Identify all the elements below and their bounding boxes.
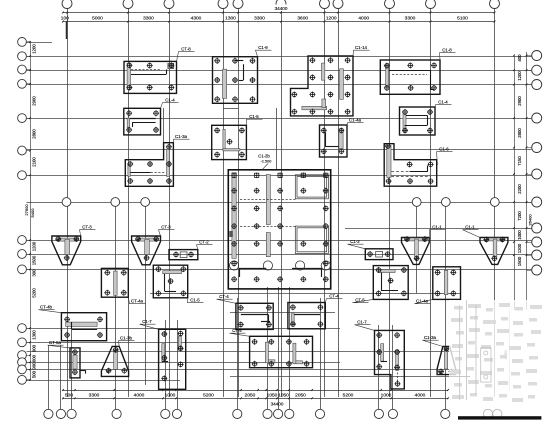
- grid start mark: [66, 22, 68, 39]
- svg-text:5100: 5100: [457, 16, 468, 22]
- large bored piles in C1-2b: [230, 261, 239, 270]
- inline axis bubbles: [62, 198, 499, 207]
- svg-text:CT-2: CT-2: [199, 240, 209, 245]
- svg-text:C1-3a: C1-3a: [175, 134, 188, 139]
- svg-text:C1-2: C1-2: [350, 239, 360, 244]
- pile cap C1-7 right: [355, 320, 405, 389]
- pile cap C1-8: [380, 48, 455, 95]
- svg-text:C1-5: C1-5: [249, 114, 259, 119]
- svg-text:C1-6: C1-6: [439, 147, 449, 152]
- pile cap CT-4 lower pair right: [288, 294, 343, 329]
- svg-text:500: 500: [32, 370, 37, 378]
- right dimension lines: [514, 56, 516, 310]
- svg-text:C1-7: C1-7: [357, 320, 367, 325]
- pile cap C1-4a upper: [320, 118, 364, 158]
- left bubble stubs: [26, 42, 30, 380]
- svg-text:CT-5a: CT-5a: [49, 340, 62, 345]
- svg-text:400: 400: [517, 54, 522, 62]
- svg-text:C1-1: C1-1: [465, 225, 475, 230]
- svg-text:1000: 1000: [165, 393, 176, 399]
- svg-text:2900: 2900: [517, 96, 522, 106]
- svg-text:C1-4: C1-4: [438, 100, 448, 105]
- top axis bubbles: [62, 0, 500, 9]
- left dimension ticks: [29, 41, 31, 381]
- svg-text:3300: 3300: [405, 16, 416, 22]
- svg-text:5400: 5400: [30, 208, 35, 218]
- top dimension texts: [61, 16, 468, 22]
- bottom dimension lines: [63, 390, 448, 392]
- left axis bubbles: [18, 38, 27, 385]
- pile cap C1-9: [213, 45, 272, 103]
- svg-text:300: 300: [32, 269, 37, 277]
- bottom dimension texts: [65, 393, 426, 399]
- svg-text:1050: 1050: [267, 393, 278, 399]
- svg-text:2050: 2050: [295, 393, 306, 399]
- svg-text:1000: 1000: [517, 230, 522, 240]
- pile cap C1-2: [348, 239, 394, 260]
- svg-text:2900: 2900: [32, 96, 37, 106]
- pile cap C1-4a right: [415, 267, 461, 304]
- pile cap C1-2b large center: [228, 154, 330, 289]
- svg-text:4300: 4300: [191, 16, 202, 22]
- svg-text:1300: 1300: [225, 16, 236, 22]
- pile cap C1-4 upper right: [400, 100, 452, 136]
- left dimension line: [30, 42, 32, 380]
- svg-text:CT-4: CT-4: [232, 328, 242, 333]
- pile cap CT-3 right triangle: [132, 225, 175, 265]
- top dimension ticks: [62, 12, 495, 23]
- svg-text:34400: 34400: [271, 402, 284, 407]
- svg-text:34400: 34400: [275, 6, 288, 11]
- svg-text:26400: 26400: [528, 214, 533, 226]
- right axis bubbles: [532, 51, 542, 276]
- svg-text:1500: 1500: [32, 255, 37, 265]
- svg-text:1200: 1200: [326, 16, 337, 22]
- pile cap CT-8: [124, 47, 195, 94]
- right dimension texts: [517, 54, 522, 266]
- bottom dimension ticks: [62, 389, 449, 399]
- pile cap CT-3 left triangle: [52, 225, 96, 265]
- pile cap C1-14: [291, 45, 370, 116]
- pile cap C1-3a right triangle: [423, 335, 456, 375]
- svg-text:C1-14: C1-14: [355, 45, 368, 50]
- pile cap C1-6: [384, 143, 452, 186]
- svg-text:1000: 1000: [381, 393, 392, 399]
- pile cap C1-4 upper left: [124, 98, 179, 135]
- pile cap CT-4 lower pair left: [217, 294, 274, 329]
- svg-text:1200: 1200: [517, 243, 522, 253]
- svg-text:5200: 5200: [203, 393, 214, 399]
- horizontal grid lines: [27, 43, 532, 381]
- svg-text:2050: 2050: [245, 393, 256, 399]
- pile cap C1-5 middle: [212, 114, 263, 160]
- pile cap C1-1 right triangle: [463, 225, 508, 265]
- svg-text:1300: 1300: [32, 330, 37, 340]
- pile cap C1-7 left: [140, 319, 186, 389]
- svg-text:1050: 1050: [278, 393, 289, 399]
- svg-text:900: 900: [32, 344, 37, 352]
- pile cap CT-5 lower right: [353, 266, 409, 303]
- pile cap CT-5a: [48, 340, 86, 378]
- pile cap C1-3a left: [125, 134, 189, 186]
- svg-text:C1-4a: C1-4a: [349, 118, 362, 123]
- svg-text:7150: 7150: [517, 156, 522, 166]
- right dimension ticks: [513, 55, 527, 256]
- svg-text:4000: 4000: [358, 16, 369, 22]
- svg-text:C1-8: C1-8: [442, 48, 452, 53]
- svg-text:CT-3: CT-3: [82, 225, 92, 230]
- svg-text:5200: 5200: [343, 393, 354, 399]
- left dimension texts: [32, 44, 37, 378]
- faint cap in watermark: [449, 300, 491, 400]
- svg-text:C1-1: C1-1: [432, 225, 442, 230]
- svg-text:7200: 7200: [517, 211, 522, 221]
- svg-text:27600: 27600: [24, 204, 29, 216]
- svg-text:5200: 5200: [32, 288, 37, 298]
- svg-text:4000: 4000: [415, 393, 426, 399]
- top dimension lines: [63, 12, 495, 14]
- watermark gray marks: [451, 303, 542, 402]
- svg-text:500: 500: [65, 393, 73, 399]
- svg-text:600: 600: [32, 354, 37, 362]
- pile cap C1-5 lower left: [153, 265, 203, 303]
- pile cap CT-4a left: [101, 268, 145, 303]
- total dimension 34400 top: [270, 5, 292, 12]
- svg-text:5000: 5000: [92, 16, 103, 22]
- svg-text:3300: 3300: [143, 16, 154, 22]
- pile cap CT-4 wide bottom: [230, 328, 313, 368]
- svg-text:3300: 3300: [254, 16, 265, 22]
- svg-text:CT-4: CT-4: [219, 294, 229, 299]
- faded bottom axis bubbles: [483, 409, 502, 418]
- pile cap C1-1 left triangle: [402, 225, 446, 265]
- svg-text:C1-9: C1-9: [258, 45, 268, 50]
- pile cap C1-3b triangle: [101, 336, 134, 377]
- svg-text:C1-4: C1-4: [165, 98, 175, 103]
- watermark fade overlay: [449, 300, 560, 410]
- svg-text:C1-3a: C1-3a: [424, 335, 437, 340]
- svg-text:CT-4a: CT-4a: [131, 299, 144, 304]
- svg-text:-1.500: -1.500: [261, 160, 272, 164]
- svg-text:2800: 2800: [32, 129, 37, 139]
- pile cap CT-4b: [39, 305, 107, 341]
- bottom axis bubbles: [44, 409, 450, 418]
- svg-text:3300: 3300: [89, 393, 100, 399]
- svg-text:CT-4: CT-4: [329, 294, 339, 299]
- svg-text:C1-5: C1-5: [190, 298, 200, 303]
- svg-text:3600: 3600: [297, 16, 308, 22]
- svg-text:CT-8: CT-8: [181, 47, 191, 52]
- svg-text:1200: 1200: [517, 71, 522, 81]
- svg-text:CT-4b: CT-4b: [40, 305, 53, 310]
- svg-text:100: 100: [61, 16, 69, 22]
- svg-text:1200: 1200: [32, 44, 37, 54]
- svg-text:2200: 2200: [517, 184, 522, 194]
- svg-text:1200: 1200: [32, 241, 37, 251]
- svg-text:900: 900: [32, 362, 37, 370]
- svg-text:4000: 4000: [134, 393, 145, 399]
- svg-text:C1-7: C1-7: [142, 319, 152, 324]
- bottom right scale bar: [458, 416, 541, 419]
- svg-text:CT-3: CT-3: [161, 225, 171, 230]
- svg-text:C1-4a: C1-4a: [416, 299, 429, 304]
- svg-text:CT-5: CT-5: [355, 298, 365, 303]
- svg-text:2800: 2800: [517, 128, 522, 138]
- svg-text:C1-3b: C1-3b: [120, 336, 133, 341]
- pile cap CT-2: [169, 240, 213, 260]
- svg-text:1500: 1500: [517, 256, 522, 266]
- right bubble stubs: [527, 56, 532, 271]
- svg-text:C1-2b: C1-2b: [258, 154, 270, 159]
- svg-text:2100: 2100: [32, 157, 37, 167]
- vertical grid lines: [49, 9, 495, 409]
